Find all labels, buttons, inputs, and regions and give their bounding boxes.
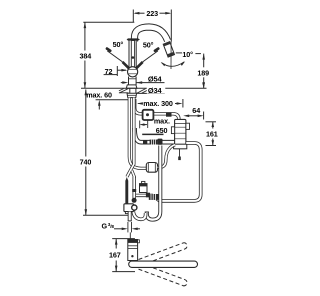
hook hose vertical xyxy=(147,146,161,220)
cluster horizontal tube xyxy=(136,194,153,197)
joint ball xyxy=(128,67,138,77)
G38 ticks xyxy=(127,222,129,232)
svg-text:740: 740 xyxy=(80,158,92,167)
max 60 arrow xyxy=(98,100,101,110)
deck hatch left xyxy=(119,89,128,93)
arc 10 deg swivel xyxy=(161,61,186,66)
svg-text:189: 189 xyxy=(197,69,209,78)
dim 161 bottom tick xyxy=(206,145,217,147)
J hook hose xyxy=(133,206,146,220)
bundle tube right xyxy=(127,98,134,177)
dim 72 tick xyxy=(116,66,118,76)
check valve dark band xyxy=(132,189,136,192)
lever tilted right thin xyxy=(143,51,158,62)
leader 10 deg xyxy=(176,52,182,54)
shank hole walls xyxy=(129,88,131,93)
left supply pipe dark xyxy=(125,177,128,204)
deck ref arrow xyxy=(202,83,205,89)
faucet body column lower xyxy=(128,77,130,86)
control unit right stub xyxy=(186,123,190,129)
dim 167 line xyxy=(115,239,118,272)
elbow ball dark xyxy=(132,198,137,203)
svg-text:384: 384 xyxy=(79,51,91,60)
cable tick left xyxy=(139,121,141,129)
dim 161 line xyxy=(212,122,215,146)
dim max300 arrow left xyxy=(137,102,143,105)
dim 223 left extension tick xyxy=(132,10,134,23)
cluster dark block xyxy=(146,193,150,198)
lever tilted left cap xyxy=(107,49,110,51)
svg-text:10°: 10° xyxy=(182,50,193,59)
kink diagonal 2 xyxy=(132,171,135,179)
svg-text:167: 167 xyxy=(109,250,121,259)
unit cable xyxy=(179,149,181,157)
stop valve foot xyxy=(125,212,130,214)
lever tilted left thick xyxy=(123,62,129,68)
spray holder cylinder xyxy=(128,240,138,261)
control unit base xyxy=(174,144,187,149)
lever pin xyxy=(131,41,134,68)
dim Ø54 underline xyxy=(136,82,164,84)
svg-text:max. 60: max. 60 xyxy=(86,91,112,100)
max300 tick xyxy=(182,99,184,108)
G38 pipe xyxy=(128,212,132,221)
dim Ø54 arrows xyxy=(121,81,142,84)
spray arm xyxy=(129,261,198,267)
dim 223 right extension tick xyxy=(170,10,172,42)
base flange xyxy=(126,85,137,88)
dash after 10 deg xyxy=(195,53,201,55)
fittings on mid hose xyxy=(143,140,147,144)
svg-text:G: G xyxy=(102,221,108,230)
64 tick right xyxy=(203,112,205,120)
dim 384 line xyxy=(84,22,87,88)
dim 740 bottom extension line xyxy=(83,214,128,216)
control unit body xyxy=(175,119,186,148)
stop valve knob xyxy=(132,205,137,210)
svg-text:/8: /8 xyxy=(110,224,114,229)
lever tilted right thick xyxy=(136,62,142,68)
dim 167 bottom tick xyxy=(112,271,135,273)
neck joint line xyxy=(129,78,136,80)
dim 72 underline xyxy=(104,74,118,76)
dim 223 line xyxy=(133,12,171,15)
svg-text:223: 223 xyxy=(146,9,158,18)
bundle tube left xyxy=(129,98,146,169)
lever pin dark dot xyxy=(132,56,135,59)
dim 189 line xyxy=(202,54,205,89)
lever tilted left thin xyxy=(107,51,122,62)
deck line xyxy=(81,87,207,89)
svg-text:50°: 50° xyxy=(113,40,124,49)
dim Ø34 text xyxy=(147,86,166,94)
dim 167 top tick xyxy=(112,238,135,240)
sprayer axis line xyxy=(170,42,172,70)
mounting nut xyxy=(127,93,137,97)
power box xyxy=(143,110,154,120)
pullout hose right of barrel xyxy=(158,145,176,168)
dim Ø34 underline xyxy=(137,92,165,94)
svg-text:50°: 50° xyxy=(143,40,154,49)
control unit inner lines xyxy=(175,123,186,144)
control unit left stub xyxy=(171,127,174,134)
svg-text:64: 64 xyxy=(192,106,200,115)
dim 384 top extension line xyxy=(83,21,134,23)
G38 arrows xyxy=(114,228,140,231)
650 underline xyxy=(142,133,163,135)
max 60 lower line xyxy=(96,99,129,101)
sprayer head xyxy=(163,42,174,57)
right pipe xyxy=(132,177,135,199)
fitting on hose xyxy=(166,113,172,117)
svg-text:max.: max. xyxy=(154,117,170,126)
dim max300 arrow right xyxy=(175,102,183,105)
cable dim arrows xyxy=(140,124,148,126)
power box cable xyxy=(147,120,149,128)
joint ball detail xyxy=(128,69,138,74)
dim 161 top tick xyxy=(206,121,217,123)
faucet body column upper xyxy=(128,40,130,67)
dim 740 line xyxy=(85,89,88,215)
cluster ribbed connector xyxy=(149,194,159,200)
stop valve body xyxy=(124,204,134,212)
dim 72 arrow xyxy=(117,69,127,72)
lever tilted right cap xyxy=(155,49,158,51)
extension to detail xyxy=(129,232,131,238)
pullout hose weight barrel xyxy=(146,163,157,173)
svg-text:max. 300: max. 300 xyxy=(143,99,173,108)
svg-text:Ø54: Ø54 xyxy=(148,74,163,83)
spray ghost lower xyxy=(139,263,188,286)
spout tube xyxy=(135,27,168,42)
supply hose to unit top xyxy=(135,99,179,123)
lever knob bar xyxy=(127,38,140,40)
svg-text:161: 161 xyxy=(206,130,218,139)
run2 hose unit to valves xyxy=(155,143,200,201)
spray ghost upper xyxy=(139,243,188,266)
hose to unit mid xyxy=(135,128,175,142)
svg-text:Ø34: Ø34 xyxy=(148,86,163,95)
dim 64 line xyxy=(183,115,203,118)
power box dot xyxy=(146,113,149,116)
deck hatch right xyxy=(137,89,150,94)
cluster cylinder xyxy=(142,181,145,183)
